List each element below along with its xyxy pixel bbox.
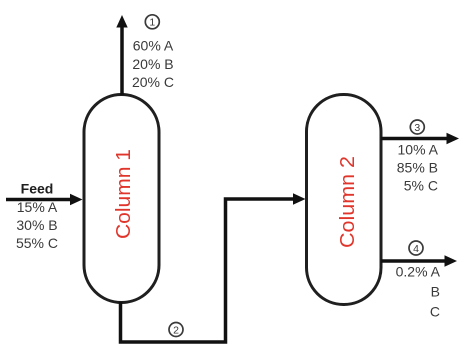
svg-text:2: 2 [173, 324, 179, 336]
svg-text:85% B: 85% B [397, 160, 438, 176]
label: feed composition [16, 199, 58, 251]
svg-text:Column 1: Column 1 [113, 149, 135, 239]
svg-text:20% C: 20% C [132, 74, 174, 90]
svg-text:Feed: Feed [21, 181, 54, 197]
svg-text:3: 3 [414, 122, 420, 134]
column C2 label "Column 2" [337, 156, 359, 248]
label: Feed [21, 181, 54, 197]
wire: bottoms stream 2 from column C1 to column C2 [121, 193, 306, 342]
column C2 vessel [307, 95, 382, 305]
svg-text:20% B: 20% B [132, 56, 173, 72]
svg-text:55% C: 55% C [16, 235, 58, 251]
node: stream number 3 [410, 120, 424, 134]
svg-text:Column 2: Column 2 [337, 156, 359, 248]
label: stream 4 composition [396, 264, 441, 320]
label: stream 3 composition [397, 142, 439, 194]
node: stream number 2 [169, 323, 183, 337]
svg-text:1: 1 [149, 17, 155, 29]
wire: overhead stream 1 from column C1 top [116, 15, 127, 95]
svg-text:10% A: 10% A [398, 142, 439, 158]
wire: bottoms stream 4 from column C2 [381, 255, 457, 266]
wire: overhead stream 3 from column C2 [381, 133, 459, 144]
svg-text:30% B: 30% B [16, 217, 57, 233]
column C1 vessel [84, 95, 159, 303]
wire: feed arrow into column C1 [6, 194, 83, 205]
node: stream number 4 [409, 241, 423, 255]
svg-text:0.2% A: 0.2% A [396, 264, 441, 280]
label: stream 1 composition [132, 38, 174, 91]
node: stream number 1 [145, 15, 159, 29]
column C1 label "Column 1" [113, 149, 135, 239]
svg-text:B: B [431, 284, 440, 300]
svg-text:5% C: 5% C [404, 178, 438, 194]
svg-text:4: 4 [413, 243, 419, 255]
svg-text:C: C [430, 304, 440, 320]
svg-text:60% A: 60% A [133, 38, 174, 54]
svg-text:15% A: 15% A [17, 199, 58, 215]
